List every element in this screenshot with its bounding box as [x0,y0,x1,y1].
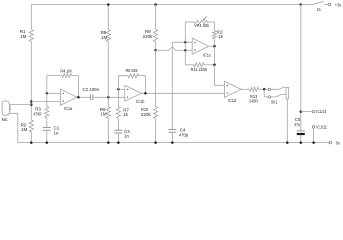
wire C2 to IC1b +in [93,96,125,98]
node supply to pin4 [300,110,303,113]
wire node down to R10 [155,50,157,106]
wire C5 to ground [300,135,302,143]
node IC1b -in junction [117,88,120,91]
jack SK1 plug body [286,87,289,98]
node SK1 ground [286,141,289,144]
terminal IC1/14 [312,110,315,113]
node IC1c out [213,45,216,48]
svg-text:R8 62k: R8 62k [126,68,139,73]
wire R4 left [47,75,62,77]
node mic bias upper [30,100,33,103]
node R10 ground [154,141,157,144]
svg-text:240R: 240R [249,99,258,104]
wire R3 to C1 [46,118,48,127]
wire C4 to ground [171,132,173,142]
wire down to IC1d -in [215,65,225,86]
svg-text:220k: 220k [143,34,153,39]
wire R11 left [185,64,193,66]
resistor R7 [116,107,120,119]
svg-text:0v: 0v [336,140,340,145]
wire IC1b out to IC1d +in [141,92,224,94]
op-amp IC1c [192,38,209,54]
svg-text:470R: 470R [33,111,41,116]
capacitor C3 [114,129,122,131]
switch S1 [301,4,313,6]
svg-text:VR1 50k: VR1 50k [194,23,210,28]
wire VR1 right to R12 [214,22,216,31]
svg-text:220k: 220k [141,112,151,117]
svg-text:1M: 1M [20,34,26,39]
resistor R12 [212,31,216,39]
capacitor C2 [89,95,91,101]
node C3 ground [117,141,120,144]
wire 0V bottom rail [18,142,329,144]
wire R2 bottom lead [30,132,32,143]
node IC1c -in [184,41,187,44]
wire pin11 to ground [313,128,315,142]
node IC1a -in junction [46,92,49,95]
svg-text:1n: 1n [54,130,59,135]
wire bias to IC1c +in with hop [156,49,170,51]
svg-text:1M: 1M [21,127,27,132]
svg-text:1n: 1n [124,134,129,139]
svg-text:IC1a: IC1a [64,106,73,111]
wire R13 to SK1 [259,88,269,90]
svg-text:47u: 47u [294,122,300,127]
svg-text:IC1/14: IC1/14 [316,109,326,114]
resistor R3 [45,107,49,119]
node IC1a out [77,96,80,99]
svg-text:R4 1M: R4 1M [60,68,71,73]
svg-text:SK1: SK1 [271,99,278,104]
svg-text:1M: 1M [101,35,107,40]
wire supply column [300,5,302,131]
wire R7 to C3 [117,119,119,131]
wire R6 to ground [107,119,109,143]
wire R4 right [72,76,79,98]
resistor R5 [106,30,110,42]
svg-text:1k: 1k [123,112,128,117]
wire mic ground [10,113,18,142]
capacitor C5 [297,130,305,132]
capacitor C1 [43,126,51,128]
svg-text:Mic: Mic [2,117,8,122]
node pin11 ground [312,141,315,144]
wire mic node to IC1a +in [31,101,60,103]
node IC1b out [144,92,147,95]
potentiometer VR1 [185,21,194,23]
wire IC1a output [77,96,91,98]
wire SK1 to ground [286,99,288,143]
wire IC1c -in [172,41,192,43]
resistor R11 [194,63,204,67]
wire R11 right [204,64,215,66]
node C4 ground [171,141,174,144]
svg-text:IC1b: IC1b [136,99,145,104]
wire R8 left leg [118,76,128,90]
resistor R1 [29,30,33,42]
node S1 rail [300,3,303,6]
wire R4 left lead down [46,76,48,107]
wire IC1c out [209,45,215,47]
wire node to R6 [107,97,109,106]
svg-text:S1: S1 [317,7,321,12]
node mic input [30,103,33,106]
node C1 ground [46,141,49,144]
wire IC1d out [241,88,250,90]
svg-text:470p: 470p [179,132,188,137]
resistor R6 [106,107,110,119]
node R11 right junction [213,64,216,67]
wire C1 to ground [46,130,48,142]
wire to IC1 pin14 [301,111,313,113]
node IC1c +in [184,49,187,52]
capacitor C4 [169,128,177,130]
wire -in down to R7 [117,89,119,106]
svg-text:IC1d: IC1d [228,98,237,103]
wire R1 to mic node [30,42,32,121]
svg-text:C2 100n: C2 100n [83,87,100,92]
node R9 rail [154,3,157,6]
wire R8 right leg [139,76,146,94]
node SK1 junction [263,88,266,91]
resistor R4 [62,74,72,78]
resistor R8 [128,74,139,78]
wire +V top rail [31,4,301,6]
wire VR1 left leg [184,22,186,65]
terminal 0v [329,141,332,144]
op-amp IC1a [60,89,77,105]
node R2 ground [30,141,33,144]
wire +in node to IC1c [185,49,192,51]
wire C3 to ground [117,133,119,143]
wire mic signal [10,104,32,106]
jack SK1 ring contact [264,89,268,97]
svg-text:+3v: +3v [335,2,342,7]
wire R12 to IC1c out [214,39,216,46]
wire R5 top lead [107,5,109,30]
node C5 ground [300,141,303,144]
node bias junction [107,96,110,99]
terminal IC1/11 [312,126,315,129]
wire R1 top lead [30,5,32,30]
svg-text:R11 220k: R11 220k [191,67,208,72]
node R5 rail [107,3,110,6]
wire R9 to node [155,42,157,51]
wire -in down to C4 [171,42,173,129]
op-amp IC1b [125,85,142,101]
svg-text:1M: 1M [100,112,106,117]
node R6 ground [107,141,110,144]
wire IC1c out down [214,46,216,65]
wire R9 top lead [155,5,157,30]
resistor R9 [154,30,158,42]
wire R10 to ground [155,119,157,143]
svg-text:IC1/11: IC1/11 [316,125,327,130]
resistor R13 [250,87,259,91]
op-amp IC1d [225,81,242,97]
svg-text:IC1c: IC1c [203,52,212,57]
node R9 R10 junction [154,49,157,52]
wire R5 to node [107,42,109,98]
resistor R2 [29,120,33,132]
wire IC1b -in [118,88,124,90]
wire IC1a -in [47,92,61,94]
jack SK1 tip contact [268,88,270,90]
svg-text:1k: 1k [218,34,223,39]
microphone Mic [2,101,10,115]
resistor R10 [154,107,158,119]
